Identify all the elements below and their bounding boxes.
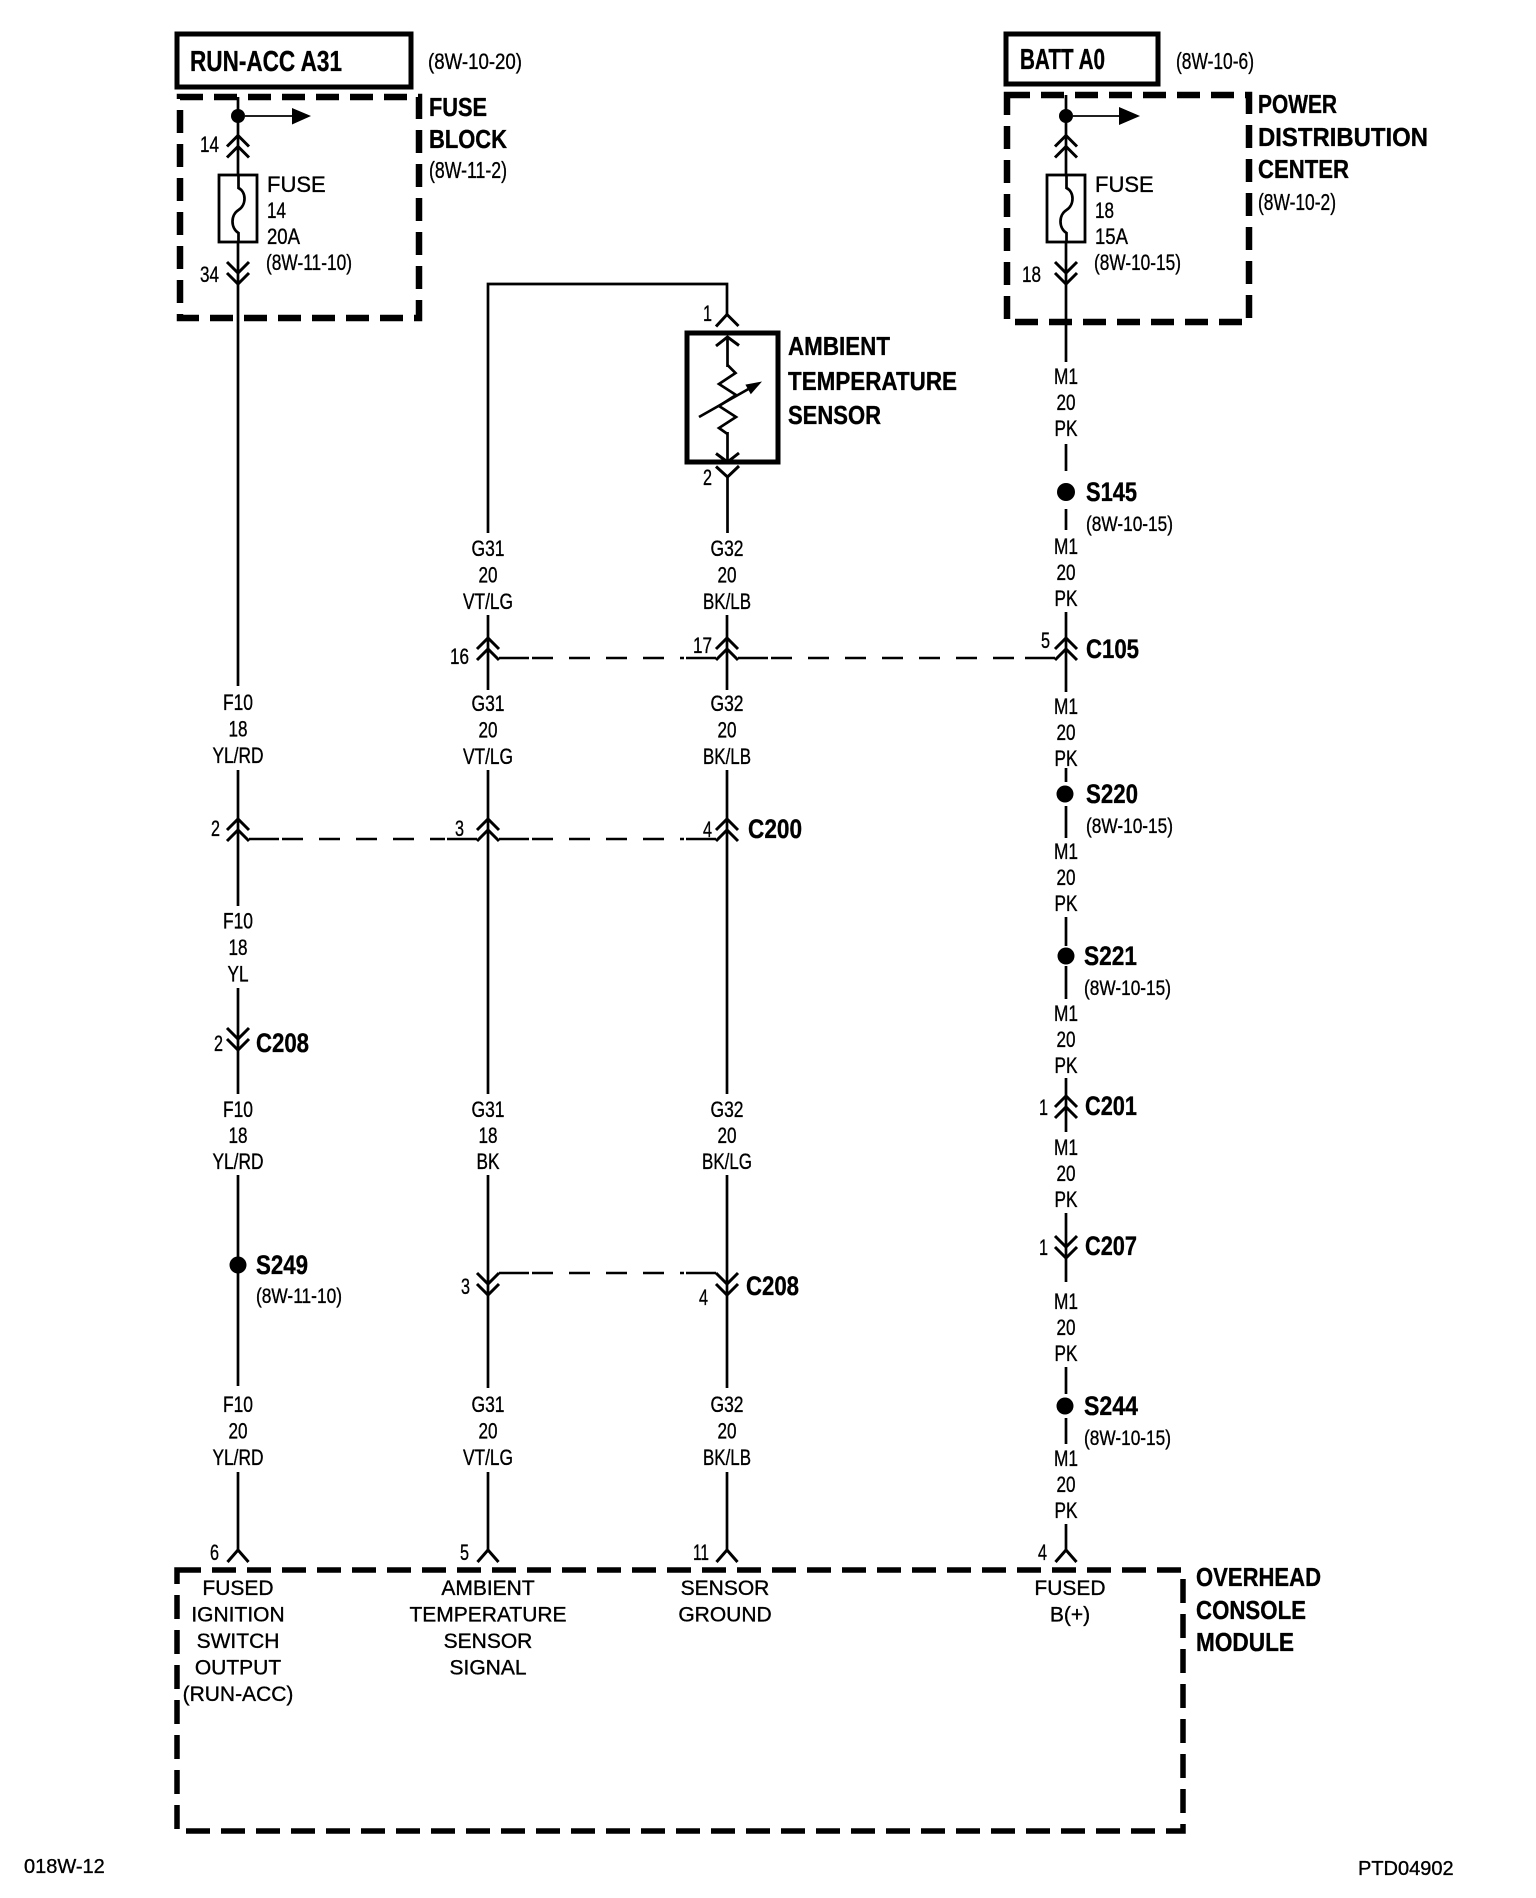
svg-text:4: 4 [1038, 1540, 1047, 1565]
wire label M1 20 PK (6) [1054, 1135, 1078, 1212]
pin 1 of ambient temperature sensor [703, 301, 739, 327]
wire label G31 20 VT/LG (bottom) [463, 1392, 513, 1470]
pin 6 of overhead console module [210, 1540, 249, 1565]
wire stub above S244 [1065, 1367, 1068, 1394]
label FUSE BLOCK (8W-11-2) [429, 92, 507, 183]
svg-text:(8W-11-10): (8W-11-10) [266, 250, 352, 275]
svg-text:18: 18 [229, 1123, 248, 1148]
svg-text:34: 34 [200, 262, 219, 287]
wire label M1 20 PK (3) [1054, 694, 1078, 771]
svg-text:TEMPERATURE: TEMPERATURE [409, 1604, 566, 1627]
svg-text:G31: G31 [472, 691, 505, 716]
svg-text:11: 11 [693, 1540, 709, 1565]
svg-text:5: 5 [1041, 628, 1050, 653]
node BATT A0 feed box [1006, 34, 1158, 84]
value label FUSE 18 15A (8W-10-15) [1094, 172, 1181, 275]
wire stub above S220 [1065, 768, 1068, 782]
svg-text:1: 1 [703, 301, 712, 326]
svg-text:(8W-10-15): (8W-10-15) [1094, 250, 1181, 275]
svg-text:SWITCH: SWITCH [197, 1630, 280, 1653]
fuse F14 20A [219, 175, 257, 242]
pin 6 function label FUSED IGNITION SWITCH OUTPUT (RUN-ACC) [183, 1577, 294, 1706]
svg-text:20: 20 [479, 1419, 498, 1444]
svg-text:18: 18 [479, 1123, 498, 1148]
svg-text:15A: 15A [1095, 224, 1128, 249]
wire segment to module pin 4 [1065, 1524, 1068, 1550]
in-line connector C201 pin 1 [1039, 1091, 1137, 1121]
svg-text:S221: S221 [1084, 941, 1137, 971]
label AMBIENT TEMPERATURE SENSOR [788, 331, 957, 430]
svg-text:GROUND: GROUND [678, 1604, 771, 1627]
svg-text:M1: M1 [1054, 1135, 1078, 1160]
wire label M1 20 PK (8) [1054, 1446, 1078, 1523]
svg-text:16: 16 [450, 644, 469, 669]
connector C208 dashed tie-line pin3 to pin4 [499, 1272, 716, 1274]
svg-text:20: 20 [1057, 1472, 1076, 1497]
label OVERHEAD CONSOLE MODULE [1196, 1562, 1321, 1657]
svg-text:(8W-11-10): (8W-11-10) [256, 1285, 342, 1308]
svg-text:S244: S244 [1084, 1391, 1138, 1421]
wire segment through C105 pin 16 [487, 615, 490, 690]
svg-text:G31: G31 [472, 536, 505, 561]
svg-text:SENSOR: SENSOR [444, 1630, 533, 1653]
svg-text:018W-12: 018W-12 [24, 1856, 105, 1878]
svg-text:BATT A0: BATT A0 [1020, 44, 1105, 76]
svg-text:(8W-10-2): (8W-10-2) [1258, 189, 1336, 215]
svg-text:2: 2 [211, 816, 220, 841]
wire label G31 20 VT/LG (2nd) [463, 691, 513, 769]
svg-text:VT/LG: VT/LG [463, 1445, 513, 1470]
svg-text:C208: C208 [256, 1028, 309, 1058]
wire label M1 20 PK (5) [1054, 1001, 1078, 1078]
wire segment through C105 pin 5 [1065, 612, 1068, 692]
svg-text:C208: C208 [746, 1271, 799, 1301]
splice S220 [1057, 779, 1174, 838]
svg-text:SENSOR: SENSOR [681, 1577, 770, 1600]
wire segment through C200 pin 3 [487, 770, 490, 1094]
node junction dot in PDC [1059, 109, 1073, 123]
wire segment through C105 pin 17 [726, 615, 729, 690]
svg-text:20: 20 [479, 563, 498, 588]
svg-text:G32: G32 [711, 1097, 744, 1122]
svg-text:2: 2 [214, 1031, 223, 1056]
svg-text:S249: S249 [256, 1250, 308, 1280]
svg-text:(8W-10-20): (8W-10-20) [428, 49, 522, 74]
svg-text:G31: G31 [472, 1097, 505, 1122]
splice S249 [230, 1250, 343, 1308]
pin 4 of overhead console module [1038, 1540, 1077, 1565]
value label FUSE 14 20A (8W-11-10) [266, 172, 352, 275]
svg-text:M1: M1 [1054, 1446, 1078, 1471]
svg-text:G32: G32 [711, 536, 744, 561]
pin 2 of ambient temperature sensor [703, 465, 739, 490]
pin 17 connector chevron C105 [693, 633, 738, 660]
wire stub below S244 [1065, 1418, 1068, 1444]
wire label M1 20 PK (1) [1054, 364, 1078, 441]
svg-text:F10: F10 [223, 1392, 253, 1417]
svg-text:(8W-10-15): (8W-10-15) [1084, 1427, 1171, 1450]
wire segment through splice S249 [237, 1175, 240, 1386]
svg-text:PTD04902: PTD04902 [1358, 1858, 1454, 1880]
svg-text:20: 20 [1057, 865, 1076, 890]
svg-text:MODULE: MODULE [1196, 1627, 1294, 1657]
svg-text:POWER: POWER [1258, 89, 1337, 119]
svg-text:F10: F10 [223, 909, 253, 934]
svg-text:20: 20 [1057, 1161, 1076, 1186]
svg-text:YL/RD: YL/RD [213, 1149, 264, 1174]
svg-text:FUSE: FUSE [267, 172, 326, 197]
pin 5 function label AMBIENT TEMPERATURE SENSOR SIGNAL [409, 1577, 566, 1680]
svg-text:18: 18 [229, 717, 248, 742]
svg-text:(8W-11-2): (8W-11-2) [429, 157, 507, 183]
wire arrow to other circuits (left) [245, 108, 311, 125]
wire label G32 20 BK/LB (bottom) [703, 1392, 751, 1470]
pin 5 of overhead console module [460, 1540, 499, 1565]
svg-text:PK: PK [1055, 746, 1078, 771]
svg-text:PK: PK [1055, 1498, 1078, 1523]
svg-text:SIGNAL: SIGNAL [449, 1657, 526, 1680]
svg-text:20: 20 [479, 718, 498, 743]
svg-text:C200: C200 [748, 814, 802, 844]
svg-text:AMBIENT: AMBIENT [441, 1577, 535, 1600]
svg-text:(RUN-ACC): (RUN-ACC) [183, 1683, 294, 1706]
svg-text:M1: M1 [1054, 839, 1078, 864]
svg-text:M1: M1 [1054, 534, 1078, 559]
pin 4 connector chevron C208 [699, 1273, 738, 1310]
connector C200 dashed tie-line pin2 to pin3 [249, 838, 477, 840]
svg-text:BLOCK: BLOCK [429, 124, 507, 154]
svg-text:PK: PK [1055, 1187, 1078, 1212]
wire segment through C200 pin 4 [726, 770, 729, 1094]
pin 4 function label FUSED B(+) [1034, 1577, 1105, 1627]
wire label F10 18 YL/RD (below C208) [213, 1097, 264, 1174]
splice S244 [1057, 1391, 1172, 1450]
wire label G31 20 VT/LG (top) [463, 536, 513, 614]
svg-text:1: 1 [1039, 1095, 1048, 1120]
svg-text:G31: G31 [472, 1392, 505, 1417]
svg-text:PK: PK [1055, 1053, 1078, 1078]
pin 34 connector chevron (fuse block) [200, 262, 249, 287]
wire label G32 20 BK/LB (2nd) [703, 691, 751, 769]
pin 3 connector chevron C200 [455, 816, 499, 841]
svg-text:20A: 20A [267, 224, 300, 249]
wire label M1 20 PK (7) [1054, 1289, 1078, 1366]
pin 2 connector chevron C200 [211, 816, 249, 841]
svg-text:18: 18 [1022, 262, 1041, 287]
svg-text:20: 20 [718, 563, 737, 588]
svg-text:20: 20 [1057, 1315, 1076, 1340]
ambient temperature sensor U1 (thermistor) [687, 333, 778, 462]
svg-text:G32: G32 [711, 1392, 744, 1417]
pin 4 connector chevron C200 [703, 817, 738, 842]
wire label G32 20 BK/LB (top) [703, 536, 751, 614]
svg-text:20: 20 [718, 1123, 737, 1148]
wire stub above S221 [1065, 917, 1068, 946]
wire label M1 20 PK (4) [1054, 839, 1078, 916]
svg-text:CENTER: CENTER [1258, 154, 1349, 184]
svg-text:(8W-10-15): (8W-10-15) [1086, 815, 1173, 838]
svg-text:YL/RD: YL/RD [213, 1445, 264, 1470]
svg-text:(8W-10-15): (8W-10-15) [1086, 513, 1173, 536]
svg-text:20: 20 [718, 1419, 737, 1444]
svg-text:20: 20 [718, 718, 737, 743]
svg-text:BK/LB: BK/LB [703, 589, 751, 614]
wire label F10 18 YL [223, 909, 253, 987]
svg-text:M1: M1 [1054, 1289, 1078, 1314]
svg-text:1: 1 [1039, 1235, 1048, 1260]
pin 16 connector chevron C105 [450, 638, 499, 669]
svg-text:BK/LB: BK/LB [703, 744, 751, 769]
wire label F10 18 YL/RD [213, 690, 264, 768]
wire stub below S145 [1065, 509, 1068, 530]
svg-text:YL: YL [228, 962, 249, 987]
wire segment through C208 pin 4 [726, 1175, 729, 1388]
wire stub below S221 [1065, 966, 1068, 999]
wire segment to C208 pin 2 [237, 988, 240, 1094]
wire A0 into PDC [1065, 95, 1068, 175]
svg-text:TEMPERATURE: TEMPERATURE [788, 366, 957, 396]
wire label M1 20 PK (2) [1054, 534, 1078, 611]
svg-text:FUSED: FUSED [202, 1577, 273, 1600]
svg-text:F10: F10 [223, 690, 253, 715]
wire label G31 18 BK [472, 1097, 505, 1174]
in-line connector C208 pin 2 (left) [214, 1028, 309, 1058]
svg-text:3: 3 [455, 816, 464, 841]
svg-text:2: 2 [703, 465, 712, 490]
svg-text:IGNITION: IGNITION [191, 1604, 284, 1627]
svg-text:3: 3 [461, 1274, 470, 1299]
in-line connector C207 pin 1 [1039, 1231, 1137, 1261]
wire segment to module pin 6 [237, 1472, 240, 1550]
svg-text:5: 5 [460, 1540, 469, 1565]
svg-text:DISTRIBUTION: DISTRIBUTION [1258, 122, 1428, 152]
svg-text:RUN-ACC A31: RUN-ACC A31 [190, 46, 342, 78]
svg-text:BK/LG: BK/LG [702, 1149, 752, 1174]
svg-text:(8W-10-15): (8W-10-15) [1084, 977, 1171, 1000]
node junction dot in fuse block [231, 109, 245, 123]
svg-text:FUSE: FUSE [429, 92, 487, 122]
svg-text:SENSOR: SENSOR [788, 400, 881, 430]
power distribution center enclosure (dashed) [1007, 95, 1249, 322]
svg-text:AMBIENT: AMBIENT [788, 331, 890, 361]
svg-text:20: 20 [1057, 390, 1076, 415]
connector C105 dashed tie-line pin17 to pin5 [738, 657, 1055, 659]
pin 18 connector chevron (PDC) [1022, 262, 1077, 287]
svg-text:B(+): B(+) [1050, 1604, 1090, 1627]
wire arrow to other circuits (right) [1073, 107, 1140, 125]
splice S145 [1057, 477, 1173, 536]
svg-text:20: 20 [1057, 1027, 1076, 1052]
fuse block enclosure (dashed) [180, 97, 419, 318]
svg-text:20: 20 [229, 1419, 248, 1444]
svg-text:PK: PK [1055, 1341, 1078, 1366]
svg-text:F10: F10 [223, 1097, 253, 1122]
svg-text:PK: PK [1055, 416, 1078, 441]
svg-text:FUSE: FUSE [1095, 172, 1154, 197]
pin 14 connector chevron (fuse block) [200, 132, 249, 158]
svg-text:C207: C207 [1085, 1231, 1137, 1261]
node RUN-ACC A31 feed box [177, 34, 411, 87]
svg-text:G32: G32 [711, 691, 744, 716]
wire sensor feed (horizontal jog G31 to sensor pin 1) [488, 284, 727, 533]
svg-text:M1: M1 [1054, 364, 1078, 389]
fuse F18 15A [1047, 175, 1085, 242]
wire segment through C207 pin 1 [1065, 1213, 1068, 1282]
svg-text:S145: S145 [1086, 477, 1137, 507]
connector C200 dashed tie-line pin3 to pin4 [499, 838, 716, 840]
svg-text:BK/LB: BK/LB [703, 1445, 751, 1470]
svg-text:PK: PK [1055, 891, 1078, 916]
pin 11 function label SENSOR GROUND [678, 1577, 771, 1627]
svg-text:OVERHEAD: OVERHEAD [1196, 1562, 1321, 1592]
wire M1 from PDC pin 18 down [1065, 242, 1068, 362]
svg-text:VT/LG: VT/LG [463, 744, 513, 769]
svg-text:PK: PK [1055, 586, 1078, 611]
svg-text:(8W-10-6): (8W-10-6) [1176, 48, 1254, 74]
svg-text:4: 4 [699, 1285, 708, 1310]
wire A31 into fuse block [237, 97, 240, 175]
wire stub above S145 [1065, 444, 1068, 471]
wire segment to module pin 11 [726, 1472, 729, 1550]
svg-text:S220: S220 [1086, 779, 1138, 809]
svg-text:M1: M1 [1054, 694, 1078, 719]
svg-text:14: 14 [267, 198, 286, 223]
svg-text:20: 20 [1057, 560, 1076, 585]
wire segment through C208 pin 3 [487, 1175, 490, 1388]
svg-text:6: 6 [210, 1540, 219, 1565]
svg-text:17: 17 [693, 633, 712, 658]
svg-text:C105: C105 [1086, 634, 1139, 664]
pin 5 connector chevron C105 [1041, 628, 1077, 660]
svg-text:FUSED: FUSED [1034, 1577, 1105, 1600]
wire segment to module pin 5 [487, 1472, 490, 1550]
wire segment to C200 pin 2 [237, 770, 240, 906]
svg-text:M1: M1 [1054, 1001, 1078, 1026]
wire label F10 20 YL/RD [213, 1392, 264, 1470]
svg-text:C201: C201 [1085, 1091, 1137, 1121]
svg-text:CONSOLE: CONSOLE [1196, 1595, 1306, 1625]
connector chevron at PDC top [1055, 136, 1077, 158]
svg-text:VT/LG: VT/LG [463, 589, 513, 614]
wire F10 from fuse block pin 34 down [237, 242, 240, 686]
wire label G32 20 BK/LG [702, 1097, 752, 1174]
pin 11 of overhead console module [693, 1540, 738, 1565]
svg-text:YL/RD: YL/RD [213, 743, 264, 768]
pin 3 connector chevron C208 [461, 1273, 499, 1299]
connector C105 dashed tie-line pin16 to pin17 [499, 657, 716, 659]
svg-text:20: 20 [1057, 720, 1076, 745]
svg-text:18: 18 [1095, 198, 1114, 223]
svg-text:BK: BK [477, 1149, 500, 1174]
label POWER DISTRIBUTION CENTER (8W-10-2) [1258, 89, 1428, 215]
svg-text:18: 18 [229, 935, 248, 960]
wire segment through C201 pin 1 [1065, 1078, 1068, 1132]
wire from sensor pin 2 down [726, 477, 729, 533]
svg-text:14: 14 [200, 132, 219, 157]
splice S221 [1058, 941, 1172, 1000]
svg-text:OUTPUT: OUTPUT [195, 1657, 282, 1680]
overhead console module enclosure (dashed) [177, 1570, 1183, 1831]
wire stub below S220 [1065, 806, 1068, 838]
